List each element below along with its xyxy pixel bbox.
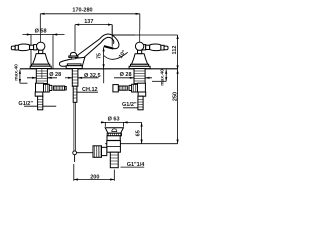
svg-text:max.40: max.40 [14,64,20,81]
svg-text:max.40: max.40 [159,69,165,86]
svg-text:250: 250 [172,92,178,101]
svg-text:Ø 32,5: Ø 32,5 [84,73,101,79]
svg-text:G1"1/4: G1"1/4 [127,162,146,168]
svg-text:G1/2": G1/2" [122,102,137,108]
svg-text:CH.12: CH.12 [82,87,98,93]
svg-text:170-280: 170-280 [72,8,92,14]
svg-text:Ø 28: Ø 28 [120,72,132,78]
svg-text:Ø 58: Ø 58 [35,28,47,34]
svg-text:Ø 63: Ø 63 [108,117,120,123]
svg-text:137: 137 [84,19,93,25]
svg-text:75: 75 [96,53,102,59]
svg-text:112: 112 [172,46,178,55]
svg-text:10°: 10° [118,49,128,59]
svg-text:G1/2": G1/2" [18,101,33,107]
svg-text:65: 65 [136,130,142,136]
svg-text:200: 200 [90,174,99,180]
svg-text:Ø 28: Ø 28 [49,72,61,78]
